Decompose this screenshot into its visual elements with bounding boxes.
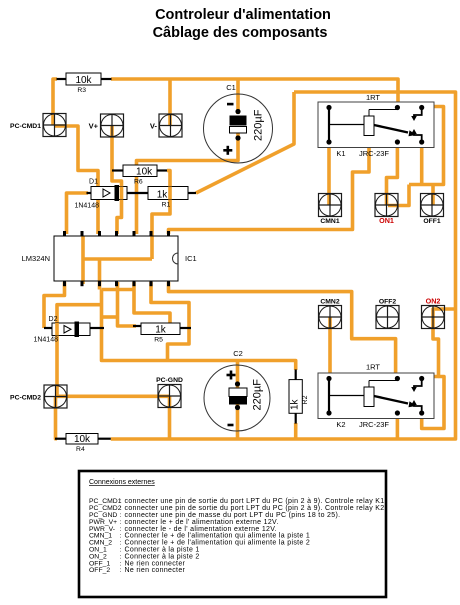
svg-text:R3: R3 xyxy=(77,87,86,94)
svg-text:V+: V+ xyxy=(89,122,99,131)
svg-text:ON1: ON1 xyxy=(379,216,394,225)
svg-text:1N4148: 1N4148 xyxy=(33,337,58,344)
svg-text:IC1: IC1 xyxy=(185,254,197,263)
svg-text:PC-CMD2: PC-CMD2 xyxy=(10,395,41,402)
svg-text:K1: K1 xyxy=(336,149,345,158)
svg-text:K2: K2 xyxy=(336,420,345,429)
svg-text:Connexions externes: Connexions externes xyxy=(89,479,155,486)
svg-text:1k: 1k xyxy=(157,189,169,200)
svg-text:R4: R4 xyxy=(76,446,85,453)
svg-text:220µF: 220µF xyxy=(253,109,265,141)
svg-text:1RT: 1RT xyxy=(366,93,380,102)
svg-text:D2: D2 xyxy=(49,316,58,323)
svg-text:Câblage des composants: Câblage des composants xyxy=(153,25,328,41)
svg-text:1k: 1k xyxy=(290,398,301,410)
svg-text:LM324N: LM324N xyxy=(22,254,50,263)
svg-text:OFF2: OFF2 xyxy=(379,299,397,306)
svg-text:10k: 10k xyxy=(136,166,153,177)
svg-text:C2: C2 xyxy=(233,349,243,358)
svg-text:CMN2: CMN2 xyxy=(320,299,339,306)
svg-text:R5: R5 xyxy=(154,337,163,344)
svg-text:10k: 10k xyxy=(74,434,91,445)
svg-text:PC-GND: PC-GND xyxy=(156,377,183,384)
svg-text:CMN1: CMN1 xyxy=(320,218,339,225)
svg-text::: : xyxy=(120,567,122,574)
svg-text:R6: R6 xyxy=(134,179,143,186)
svg-text:C1: C1 xyxy=(226,83,236,92)
svg-text:D1: D1 xyxy=(89,179,98,186)
svg-text:Controleur d'alimentation: Controleur d'alimentation xyxy=(155,7,331,23)
svg-text:R2: R2 xyxy=(302,395,309,404)
svg-text:V-: V- xyxy=(150,122,158,131)
svg-text:1N4148: 1N4148 xyxy=(74,203,99,210)
svg-text:OFF_2: OFF_2 xyxy=(89,567,110,574)
svg-text:10k: 10k xyxy=(75,75,92,86)
svg-text:1k: 1k xyxy=(155,324,167,335)
svg-text:JRC-23F: JRC-23F xyxy=(359,149,389,158)
svg-text:Ne rien connecter: Ne rien connecter xyxy=(125,567,186,574)
svg-text:JRC-23F: JRC-23F xyxy=(359,420,389,429)
svg-text:220µF: 220µF xyxy=(252,379,264,411)
svg-text:OFF1: OFF1 xyxy=(423,218,441,225)
svg-text:PC-CMD1: PC-CMD1 xyxy=(10,123,41,130)
svg-text:R1: R1 xyxy=(162,202,171,209)
svg-text:ON2: ON2 xyxy=(426,297,441,306)
svg-text:1RT: 1RT xyxy=(366,363,380,372)
